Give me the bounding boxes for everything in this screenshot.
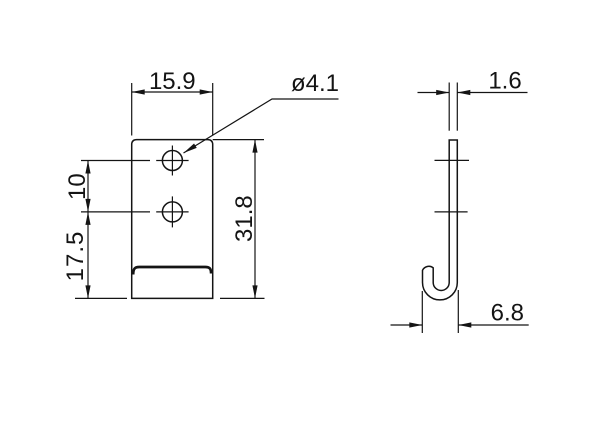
svg-text:6.8: 6.8	[491, 300, 524, 327]
svg-text:15.9: 15.9	[149, 68, 196, 95]
svg-text:ø4.1: ø4.1	[291, 70, 339, 97]
svg-text:10: 10	[64, 173, 91, 200]
svg-text:31.8: 31.8	[231, 195, 258, 242]
svg-text:1.6: 1.6	[488, 68, 521, 95]
svg-text:17.5: 17.5	[62, 231, 89, 282]
